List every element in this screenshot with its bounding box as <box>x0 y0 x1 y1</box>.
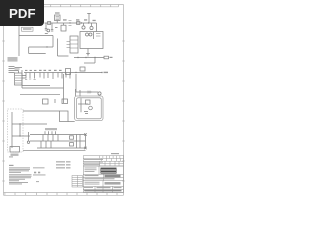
rail top tick d <box>55 131 57 134</box>
notes para1 line2 <box>9 168 30 171</box>
right zone ticks <box>122 41 124 181</box>
power supply box U1 <box>80 32 103 49</box>
revision row2 text <box>84 161 103 164</box>
diode D2 <box>88 91 92 94</box>
heater tap 8 <box>69 73 71 79</box>
revision table <box>83 153 124 166</box>
capacitor C2 stub <box>51 23 54 31</box>
rail component 1d <box>57 135 59 142</box>
heater tap 7 <box>65 73 67 78</box>
rail component 1e <box>77 135 81 142</box>
title row4 text c <box>105 182 121 185</box>
top zone ticks <box>51 5 119 7</box>
transistor Q2 <box>90 26 93 29</box>
node J10 <box>19 123 20 124</box>
rail component 2d <box>77 141 81 148</box>
title cell text a2 <box>85 168 97 171</box>
connector P1 body <box>70 36 78 53</box>
wire v63 drop <box>63 74 65 99</box>
notes right col b1 <box>34 172 36 174</box>
power rail stub V+ <box>87 14 91 24</box>
rectifier D1 box <box>61 25 66 31</box>
capacitor C4 marks <box>69 21 72 26</box>
wire h85 <box>22 85 50 87</box>
wire h111 <box>23 110 60 112</box>
notes right col b2 <box>38 172 40 174</box>
label RT4 <box>93 20 96 21</box>
output rail 2 <box>30 140 86 142</box>
output rail 3 <box>37 147 86 149</box>
label PL1 text <box>23 28 32 30</box>
notes para2 line4 <box>9 178 25 181</box>
notes para1 line4 <box>9 171 21 174</box>
label heater 5 <box>59 70 62 71</box>
transformer T2 hatch <box>15 76 22 84</box>
heater tap 2 <box>43 73 45 79</box>
wire h94 <box>20 94 60 96</box>
label arrow +V out <box>104 72 109 73</box>
small box K1 <box>43 99 49 104</box>
notes para2 line3 <box>9 176 31 179</box>
node J11 <box>19 135 20 136</box>
ground return wire <box>23 150 86 152</box>
notes right col a <box>33 166 45 169</box>
note text left small <box>8 57 18 62</box>
title block row line 2 <box>83 177 124 179</box>
resistor R1 <box>77 22 80 25</box>
switch SW1 marks <box>45 28 58 34</box>
wire feed to connector <box>58 39 69 57</box>
heater tap 3 <box>47 73 49 79</box>
output label line 1 <box>56 161 65 162</box>
transistor Q1 <box>82 26 85 29</box>
transformer T2 core <box>15 73 23 85</box>
node J5 <box>77 57 78 58</box>
connector P1 pin rows <box>70 40 78 48</box>
node J2 <box>81 22 82 23</box>
label heater 4 <box>54 70 57 71</box>
heater tap 6 <box>61 73 63 79</box>
wire left vertical from badge <box>18 26 20 56</box>
used-on table rows <box>72 178 83 186</box>
rail component 2b <box>45 141 47 148</box>
rail fuse box b <box>70 143 74 146</box>
node J8 <box>75 72 76 73</box>
wire osc entry a <box>75 89 77 96</box>
wire return to left <box>29 46 53 48</box>
wire left stub down <box>29 47 46 54</box>
notes para2 line2 <box>9 175 32 178</box>
title row3 text <box>85 178 115 179</box>
title block row line 5 <box>83 189 124 191</box>
wire mid bus link <box>94 58 96 64</box>
rail component 1b <box>47 135 49 142</box>
wire h88 <box>22 87 64 89</box>
relay K3 box <box>60 111 69 122</box>
title row5 text b <box>84 189 93 192</box>
title cell text a1 <box>85 167 97 170</box>
wire v28 link <box>28 132 30 141</box>
notes para3 line1 <box>9 181 28 184</box>
border outer bottom line <box>4 194 124 196</box>
transformer T1 internal marks <box>56 17 60 20</box>
wire stub label <box>9 156 13 157</box>
border inner bottom line <box>4 192 124 194</box>
rail component 2c <box>50 141 52 148</box>
node J3 <box>88 22 89 23</box>
used-on table col <box>77 176 79 188</box>
capacitor C1 stub <box>45 23 48 30</box>
title block col line e <box>103 174 105 181</box>
connector P1 pin stubs <box>67 42 71 48</box>
company logo <box>101 168 117 174</box>
choke L1 box <box>66 69 71 75</box>
rail top tick c <box>51 131 53 134</box>
title block col line d <box>112 186 114 192</box>
drawing number text <box>97 187 111 188</box>
wire TB1 tap a <box>15 67 23 69</box>
wire v63 bottom bend <box>63 99 65 103</box>
battery B1 box <box>10 147 20 153</box>
terminal strip TB1 <box>9 67 15 73</box>
transformer T1 <box>55 15 61 21</box>
terminal link vertical <box>85 135 87 149</box>
title row4 text b <box>85 183 100 186</box>
heater loop marks <box>25 78 36 81</box>
rail component 1a <box>42 135 44 142</box>
wire h124 <box>12 123 47 125</box>
oscillator wire v81 <box>80 98 82 112</box>
U1 internal vline <box>93 32 95 39</box>
node J1 <box>69 22 70 23</box>
title cell text a3 <box>85 170 95 173</box>
wire step down <box>52 36 54 48</box>
revision table header dividers <box>100 156 120 159</box>
heater bus wire <box>24 72 102 74</box>
title row4 text a <box>85 181 100 184</box>
notes para1 line1 <box>9 166 30 169</box>
output rail 1 <box>30 134 86 136</box>
wire h121.5 <box>68 121 75 123</box>
title block col line a <box>98 166 100 174</box>
title block row line 4 <box>83 186 124 188</box>
sheet text <box>114 187 122 188</box>
label heater L3 <box>34 70 36 71</box>
wire T2 side tap <box>22 76 26 79</box>
wire v20 <box>19 124 21 136</box>
jack J9 <box>98 92 101 95</box>
wire horizontal feed <box>19 35 53 37</box>
notes para3 line2 <box>9 183 22 186</box>
revision table row lines <box>83 159 124 164</box>
oscillator wire h104 <box>78 103 88 105</box>
ground bus vertical <box>11 112 13 148</box>
rail fuse box a <box>70 136 74 139</box>
node J4 <box>46 46 47 47</box>
wire T2 right vertical <box>21 70 23 88</box>
heater tap 1 <box>39 73 41 78</box>
label above table <box>111 153 119 154</box>
notes para1 line3 <box>9 169 29 172</box>
label heater 2 <box>44 70 47 71</box>
node J8b <box>101 72 102 73</box>
left zone ticks <box>2 41 4 181</box>
resistor R2 <box>104 56 109 59</box>
heater tap L3 <box>34 73 36 79</box>
PDF badge <box>0 0 44 26</box>
crystal Y1 <box>86 100 91 104</box>
neon lamp NE1 <box>47 29 50 32</box>
title block row line 3 <box>83 180 124 182</box>
revision table frame <box>84 156 124 167</box>
title row2 text <box>85 175 99 176</box>
address block text <box>105 175 121 178</box>
wire TB1 to T2 <box>15 71 19 74</box>
wire v76 drop <box>75 74 77 92</box>
title block frame <box>84 166 124 193</box>
shield box inner <box>77 98 102 119</box>
shield box outer <box>75 96 103 121</box>
label RT2 <box>76 19 79 20</box>
title block row line 1 <box>83 174 124 176</box>
revision row1 text <box>84 158 103 161</box>
revision row3 text <box>84 163 100 166</box>
node J7 <box>94 57 95 58</box>
rail top tick a <box>44 131 46 134</box>
border inner top line <box>4 6 119 8</box>
notes right col d <box>36 180 39 183</box>
output label line 3 <box>56 167 65 168</box>
notes right col c <box>33 174 46 177</box>
label B1 <box>11 154 19 156</box>
revision table col lines <box>100 161 120 166</box>
wire TB1 tap b <box>15 68 20 70</box>
label heater L1 <box>25 70 27 71</box>
bottom zone ticks <box>5 193 117 196</box>
bottom dense text row <box>85 190 122 192</box>
used-on table frame <box>72 176 83 188</box>
wire U1 bottom stub <box>87 49 89 54</box>
wire mid bus <box>74 57 104 59</box>
wire h136 <box>12 135 30 137</box>
notes title <box>9 165 14 166</box>
heater tap L2 <box>29 73 31 79</box>
label heater L2 <box>30 70 32 71</box>
wire T1 drop <box>56 21 58 24</box>
border right line <box>123 5 125 196</box>
rail component 2a <box>40 141 42 148</box>
label heater 1 <box>39 70 42 71</box>
U1 winding circle b <box>89 33 92 36</box>
label RT1 <box>63 19 67 20</box>
notes para2 line5 <box>9 179 19 182</box>
label under badge PL1 <box>22 27 34 31</box>
rail component 1c <box>52 135 54 142</box>
output label line 2 <box>56 164 65 165</box>
wire D1 top stub <box>63 23 65 25</box>
label heater 3 <box>49 70 52 71</box>
label RT3 <box>84 19 87 20</box>
border outer top line <box>4 4 124 6</box>
small box K2 <box>62 99 68 104</box>
used-on table <box>72 176 83 188</box>
node J6 <box>85 57 86 58</box>
heater tap L1 <box>25 73 27 79</box>
wire mid bus lower <box>84 62 95 64</box>
heater tap 5 <box>57 73 59 78</box>
label B+ <box>110 57 113 58</box>
notes para2 line1 <box>9 173 32 176</box>
wire AC input bus <box>45 22 97 24</box>
notes and labels (text smudges) <box>9 156 71 184</box>
rail top tick b <box>48 131 50 134</box>
heater tap 4 <box>52 73 54 80</box>
title block <box>83 166 124 193</box>
U1 winding circle a <box>86 33 89 36</box>
border left line <box>3 5 5 196</box>
label T1 <box>55 12 60 13</box>
title row5 text a <box>84 186 93 189</box>
transistor Q3 <box>89 106 93 110</box>
capacitor C3 box above bus <box>80 67 85 71</box>
terminal post top <box>84 133 86 135</box>
oscillator mark <box>84 112 88 114</box>
ground shield dashed box <box>8 109 24 152</box>
wire stub between boxes <box>54 99 56 103</box>
title block col line b <box>102 181 104 193</box>
wire Q1 stub <box>83 23 85 26</box>
wire h92 <box>76 91 98 93</box>
wire right edge drop <box>96 23 98 32</box>
fuse F1 <box>48 22 51 25</box>
wire osc entry b <box>79 90 81 97</box>
title block col line c <box>94 186 96 192</box>
U1 internal marks <box>96 34 101 37</box>
antenna terminal A1 <box>27 141 29 143</box>
ground G1 <box>86 54 90 57</box>
terminal post bottom <box>84 147 86 149</box>
revision table row2 dividers <box>101 158 120 161</box>
wire Q2 stub <box>91 23 93 26</box>
label mid small <box>45 128 57 130</box>
sheet background <box>0 0 149 198</box>
